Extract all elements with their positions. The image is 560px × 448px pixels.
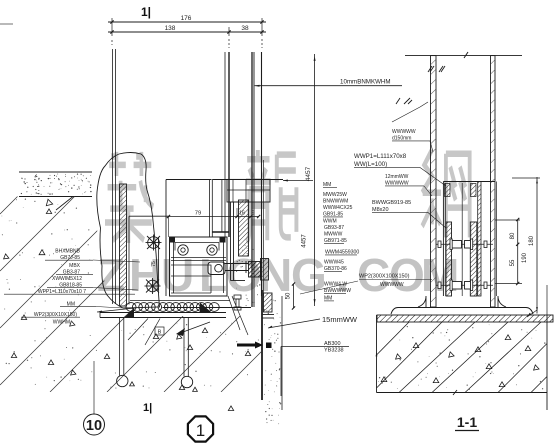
screw circle left [178, 245, 188, 255]
leader arrow bottom-left [97, 308, 135, 312]
1-1 box left wall [442, 182, 444, 297]
wall hatch stipple [2, 199, 259, 390]
glass label leader [255, 85, 402, 87]
1-1 column B [470, 222, 477, 296]
svg-text:BWWGB919-85: BWWGB919-85 [372, 200, 411, 206]
svg-text:1|: 1| [143, 402, 152, 414]
1-1 base plate profile [391, 296, 533, 314]
vertical dim line 4457 [314, 54, 316, 306]
svg-text:12mmWW: 12mmWW [385, 174, 409, 180]
1-1 top stub B [471, 184, 477, 197]
wall hatch triangles [4, 209, 251, 411]
svg-text:M: M [421, 249, 459, 301]
bolt plate left edge [128, 216, 130, 304]
1-1 right glass bar [491, 56, 496, 307]
transom box outline [170, 237, 228, 296]
bolt plate top [129, 215, 169, 217]
1-1 dim inner line [517, 220, 519, 284]
svg-text:B: B [158, 330, 162, 336]
svg-text:MWWW: MWWW [324, 232, 343, 238]
svg-text:190: 190 [522, 252, 528, 263]
svg-text:10mmBNMKWHM: 10mmBNMKWHM [340, 79, 391, 86]
top-left page mark [0, 23, 13, 25]
mullion left double line [112, 49, 114, 304]
transom boss line [171, 257, 226, 259]
glass pane line x252 [251, 52, 253, 307]
anchor rod right eye [181, 376, 192, 387]
1-1 slab bottom tick [453, 390, 457, 395]
anchor rod left eye [117, 375, 128, 386]
1-1 slab stipple [378, 324, 545, 389]
1-1 dim outer line [536, 177, 538, 314]
glazing line x225 [224, 52, 226, 237]
svg-text:176: 176 [181, 15, 192, 22]
svg-text:15mmWW: 15mmWW [322, 315, 358, 324]
anchor rod right [183, 318, 185, 377]
svg-text:38: 38 [241, 25, 249, 32]
svg-text:XWWIM5X12: XWWIM5X12 [52, 276, 82, 282]
1-1 base hatch band [377, 315, 553, 322]
lightning bar [237, 344, 256, 347]
svg-text:55: 55 [510, 259, 516, 266]
p2-300 leader [300, 281, 358, 294]
1-1 bolt row lower [436, 284, 493, 286]
1-1 column A [446, 222, 452, 296]
embed top leader [392, 107, 420, 122]
svg-text:WP2(300X100X150): WP2(300X100X150) [359, 274, 410, 280]
svg-text:1|: 1| [141, 5, 151, 19]
svg-text:BNWWWM: BNWWWM [323, 199, 348, 205]
wall strip stipple [236, 245, 281, 424]
dim tick c [260, 30, 263, 33]
panel back rect [166, 180, 229, 297]
svg-text:75: 75 [151, 261, 157, 267]
wall strip left edge [261, 290, 263, 400]
1-1 slab left edge [376, 315, 378, 393]
svg-text:G: G [291, 249, 327, 301]
svg-text:WWW4CX25: WWW4CX25 [323, 205, 353, 211]
1-1 slab right edge [546, 315, 548, 410]
dimension 176 line [108, 21, 266, 23]
ext line x262 [261, 18, 263, 36]
bolt spacing dim [158, 237, 160, 290]
hanger bracket rails [230, 202, 232, 281]
detail 10 circle [84, 414, 105, 435]
screw circle right [207, 245, 217, 255]
svg-text:WWHM: WWHM [53, 320, 70, 326]
1-1 dim ext top [512, 177, 540, 179]
bolt slot shape [208, 262, 225, 275]
dim ext x237 [236, 208, 238, 217]
svg-text:WWWWW: WWWWW [380, 282, 404, 288]
hanger block dark [249, 262, 261, 278]
weld mark b [396, 98, 400, 104]
panel bottom plate [100, 312, 226, 314]
1-1 right edge upper [546, 285, 548, 315]
ext line x229 [228, 27, 230, 36]
dim 50 line [293, 284, 295, 308]
svg-text:WWW4 W: WWW4 W [324, 282, 347, 288]
svg-text:1: 1 [196, 421, 205, 440]
glazing line x229 [228, 52, 230, 237]
dimension 176 tick left [110, 20, 113, 23]
1-1 base arrow [527, 313, 531, 317]
middle label stack [323, 182, 359, 302]
wall anchor hatched [264, 293, 273, 312]
1-1 extra plate line [496, 182, 498, 297]
small bolt under bracket [234, 295, 241, 299]
left label triangle [39, 250, 45, 255]
svg-text:MBX: MBX [69, 263, 81, 269]
ext line x112 [111, 18, 113, 36]
1-1 dim ext mid [495, 219, 520, 221]
svg-text:50: 50 [286, 292, 292, 299]
fire-stop blob outline [97, 153, 160, 309]
detail 1 octagon [188, 416, 213, 441]
dimension 176 tick right [260, 20, 263, 23]
svg-text:80: 80 [510, 232, 516, 239]
leader lines to p2 label [228, 296, 240, 330]
dim 79-16-9 line [169, 216, 259, 218]
hanger arm [225, 261, 248, 273]
connector box [212, 179, 283, 181]
detail 10 leader [93, 361, 95, 414]
transom inner step [175, 243, 219, 251]
svg-text:9: 9 [252, 211, 255, 217]
transom leader arrow [283, 180, 313, 182]
slab band top line [19, 171, 92, 173]
glazing bottom line [163, 307, 252, 309]
hanger block2 [261, 259, 269, 281]
slab band bottom line [19, 196, 92, 198]
lightning square [266, 343, 272, 349]
transom top gasket left [170, 237, 175, 243]
weld leader arrow [176, 328, 185, 336]
svg-text:180: 180 [529, 235, 535, 246]
dim tick b [227, 30, 230, 33]
svg-text:1-1: 1-1 [457, 414, 477, 430]
slab band stipple [21, 173, 92, 194]
1-1 box top [443, 181, 495, 183]
svg-text:79: 79 [195, 211, 201, 217]
wall strip right edge [281, 296, 283, 410]
15mm leader [268, 319, 320, 328]
svg-text:10: 10 [86, 418, 102, 434]
panel bottom line a [130, 300, 230, 302]
svg-text:WWP1=L111x70x8: WWP1=L111x70x8 [354, 153, 407, 160]
wall anchor plates [262, 314, 274, 316]
right label leaders [430, 141, 433, 152]
watermark char wang [422, 150, 470, 237]
leader under panel [128, 319, 148, 341]
embed label vert [280, 347, 282, 397]
hanger insert hatched [239, 200, 249, 256]
slab triangle mark [46, 199, 52, 205]
svg-text:BHXMBNB: BHXMBNB [55, 249, 80, 255]
transom lower cavity [171, 239, 224, 293]
watermark char zhu [105, 152, 153, 243]
coil end wedge left [124, 308, 134, 317]
backer rod coil [126, 303, 219, 312]
glass pane line x261 [261, 52, 263, 296]
anchor bolt cross upper [146, 235, 162, 251]
coil end wedge right [200, 303, 211, 313]
dim tick a [110, 30, 113, 33]
left label stack [4, 249, 135, 326]
svg-text:YB3238: YB3238 [324, 348, 344, 354]
left label leaders [93, 260, 140, 262]
1-1 left glass bar [431, 56, 437, 307]
svg-text:WWW45: WWW45 [324, 260, 344, 266]
svg-text:WW(L=100): WW(L=100) [354, 161, 387, 168]
transom top gasket right [220, 237, 226, 243]
1-1 inner center line [461, 183, 463, 296]
svg-text:4457: 4457 [305, 166, 312, 181]
1-1 slab bottom [377, 392, 548, 394]
1-1 slab triangles [381, 335, 539, 387]
svg-text:138: 138 [165, 25, 176, 32]
svg-text:GB93-87: GB93-87 [324, 225, 344, 231]
svg-text:MWW25W: MWW25W [323, 192, 347, 198]
steel bar in blob [120, 184, 127, 306]
watermark char long [246, 150, 296, 242]
weld mark a [428, 66, 432, 72]
1-1 slab hatch [377, 322, 548, 393]
slab leader line [56, 197, 73, 211]
watermark ZHULONG.COM [97, 249, 459, 301]
anchor bolt cross lower [145, 278, 161, 294]
1-1 top tick [464, 52, 468, 58]
svg-text:4457: 4457 [302, 234, 308, 248]
embed label line [281, 346, 349, 348]
dim ext x168 [168, 217, 170, 238]
right label stack [354, 129, 430, 213]
1-1 top stub A [445, 184, 451, 197]
svg-text:WWWWW: WWWWW [392, 129, 416, 135]
connector box inner [227, 179, 270, 202]
1-1 top line [405, 55, 522, 57]
anchor rod left [119, 318, 121, 376]
1-1 bolt row upper [436, 243, 493, 245]
dimension 138-38 line [108, 31, 266, 33]
svg-text:WWM: WWM [323, 219, 337, 225]
wall hatch lines [0, 196, 300, 392]
1-1 box right wall [478, 182, 481, 297]
